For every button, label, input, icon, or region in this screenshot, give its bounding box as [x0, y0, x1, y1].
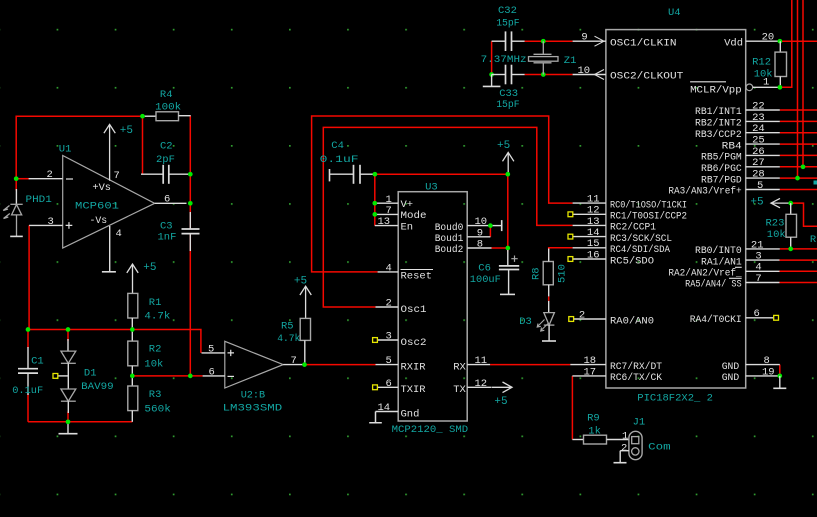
wire pin4 exit [780, 270, 817, 272]
wire Boud2 to +5 [492, 247, 508, 249]
svg-text:2pF: 2pF [156, 154, 175, 166]
ground stub below J1 [619, 451, 621, 463]
capacitor C1 top stub [27, 347, 29, 369]
svg-text:5: 5 [757, 180, 763, 192]
wire RB pin 26 exit [780, 154, 817, 156]
resistor R9 [584, 435, 607, 444]
svg-text:Vdd: Vdd [724, 37, 743, 49]
pin 1 MCLR stub [753, 86, 780, 88]
svg-text:LM393SMD: LM393SMD [223, 402, 283, 414]
junction bus/pin28 [795, 176, 800, 181]
pin 2 RA0 stub [574, 318, 606, 320]
resistor R23 [786, 214, 797, 237]
svg-text:10k: 10k [767, 229, 786, 241]
svg-text:11: 11 [587, 194, 600, 206]
svg-text:C6: C6 [478, 262, 491, 274]
svg-text:MCP601: MCP601 [75, 200, 119, 212]
op-amp U2:B [225, 341, 283, 388]
svg-text:PHD1: PHD1 [26, 194, 52, 206]
resistor R4 left stub [143, 115, 157, 117]
svg-text:U1: U1 [59, 144, 72, 156]
svg-text:23: 23 [752, 112, 765, 124]
R23 bottom stub [790, 237, 792, 249]
svg-text:3: 3 [386, 331, 392, 343]
junction pin2/PHD1 [14, 176, 19, 181]
svg-text:10: 10 [578, 65, 591, 77]
wire +5/C6 vertical [507, 174, 509, 252]
diode D1 mid stub [67, 363, 69, 389]
svg-text:TX: TX [453, 384, 466, 396]
svg-text:RB4: RB4 [722, 140, 742, 152]
svg-text:22: 22 [752, 100, 765, 112]
pin 8 GND stub [746, 364, 780, 366]
crystal Z1 [529, 41, 559, 74]
pin 4 of U1 [109, 226, 111, 271]
overline on SS [729, 277, 742, 279]
svg-text:RB3/CCP2: RB3/CCP2 [695, 129, 742, 141]
svg-text:RC4/SDI/SDA: RC4/SDI/SDA [610, 244, 671, 256]
wire RB pin 27 exit [780, 166, 817, 168]
pin 27 stub [746, 166, 780, 168]
junction Boud0 gnd tie [488, 223, 493, 228]
svg-text:6: 6 [164, 194, 170, 206]
minus sign at pin2 [66, 178, 73, 180]
junction V+ pin1 [372, 201, 377, 206]
svg-text:RA5/AN4/ SS: RA5/AN4/ SS [685, 279, 742, 291]
wire pin21 exit [780, 248, 817, 250]
svg-text:11: 11 [475, 355, 488, 367]
unconnected marker TXIR [373, 385, 378, 390]
resistor R12 [775, 52, 787, 76]
svg-text:RC7/RX/DT: RC7/RX/DT [610, 361, 662, 373]
pin 13 En stub [375, 225, 398, 227]
svg-text:U2:B: U2:B [241, 390, 266, 402]
connector J1 body [629, 431, 642, 459]
pin 24 stub [746, 132, 780, 134]
junction R1/R2 [130, 327, 135, 332]
op-amp U1 [63, 156, 155, 249]
ground below PHD1 [10, 235, 23, 237]
ground below C32/C33 [483, 85, 501, 87]
wire MCLR vertical exit [780, 0, 792, 87]
svg-text:C1: C1 [31, 355, 44, 367]
ground below C6 [500, 293, 515, 295]
diode D1 lower [61, 389, 76, 401]
svg-text:RB7/PGD: RB7/PGD [701, 174, 742, 186]
capacitor C4 left stub [330, 173, 354, 175]
unconnected marker pin2 [569, 317, 574, 322]
overline on Reset [401, 269, 434, 271]
pin 11 RC0 stub [573, 202, 606, 204]
capacitor C33 right stub [512, 74, 525, 76]
svg-text:100k: 100k [155, 102, 181, 114]
IC U3 MCP2120 body [398, 192, 467, 421]
ground below pin4 U1 [102, 271, 116, 273]
svg-text:10: 10 [475, 216, 488, 228]
svg-text:Mode: Mode [401, 210, 427, 222]
R12 bottom stub [779, 77, 781, 88]
pin 6 TXIR stub [377, 386, 398, 388]
svg-text:1nF: 1nF [158, 232, 177, 244]
svg-text:0.1uF: 0.1uF [320, 154, 359, 166]
supply +5 arrow above R1 [127, 264, 138, 293]
svg-text:6: 6 [386, 378, 392, 390]
pin 8 Boud2 stub [467, 247, 491, 249]
unconnected marker pin14 [568, 234, 573, 239]
svg-text:U4: U4 [668, 7, 681, 19]
wire C32/C33 left vertical [491, 41, 493, 74]
svg-text:Com: Com [648, 442, 670, 454]
wire GND8 to GND19 tie [779, 365, 781, 376]
capacitor C2 plate1 [162, 165, 164, 184]
capacitor C33 left stub [492, 74, 506, 76]
junction C33 left [489, 72, 494, 77]
wire mid rail (C1/D1/R1-R2 junction to U2 pin5) [28, 330, 201, 353]
svg-text:OSC2/CLKOUT: OSC2/CLKOUT [610, 71, 683, 83]
capacitor C32 plate1 [505, 31, 507, 51]
svg-text:RC3/SCK/SCL: RC3/SCK/SCL [610, 233, 672, 245]
svg-text:14: 14 [378, 402, 391, 414]
svg-text:9: 9 [581, 32, 587, 44]
svg-text:PIC18F2X2_ 2: PIC18F2X2_ 2 [637, 393, 713, 405]
svg-text:8: 8 [764, 355, 770, 367]
svg-text:RB5/PGM: RB5/PGM [701, 152, 742, 164]
resistor R8 [543, 262, 553, 285]
clock input arrow pin9 [595, 36, 605, 46]
pin 5 RXIR stub [376, 364, 399, 366]
pin 1 V+ stub [375, 202, 398, 204]
svg-text:GND: GND [722, 372, 740, 384]
overline on MCLR [690, 81, 726, 83]
wire U2 out to RXIR of U3 [305, 364, 376, 366]
svg-text:100uF: 100uF [470, 274, 501, 286]
capacitor C6 top stub [507, 250, 509, 266]
svg-text:4.7k: 4.7k [144, 311, 170, 323]
wire red tick R8-D3 [548, 296, 550, 301]
svg-text:4.7k: 4.7k [277, 333, 300, 345]
junction Boud2/+5 [505, 246, 510, 251]
svg-text:R2: R2 [149, 344, 162, 356]
pin 17 RC6 stub [572, 375, 606, 377]
svg-text:RA0/AN0: RA0/AN0 [610, 315, 654, 327]
svg-text:27: 27 [752, 157, 765, 169]
supply +5 arrow right of TX [492, 382, 512, 393]
capacitor C2 plate2 [168, 165, 170, 184]
pin 2 Osc1 stub [376, 306, 399, 308]
svg-text:26: 26 [752, 146, 765, 158]
svg-text:R23: R23 [766, 217, 785, 229]
wire OSC2/CLKOUT row [525, 74, 573, 76]
pin 3 stub [746, 259, 780, 261]
wire +5/R23 exit jog [791, 203, 817, 226]
ground right of Boud0 [501, 220, 503, 231]
unconnected marker pin12 [568, 212, 573, 217]
capacitor C4 plate2 [359, 165, 361, 184]
pin 11 RX stub [467, 364, 490, 366]
svg-text:Boud2: Boud2 [435, 244, 464, 256]
capacitor C1 plate1 [18, 368, 38, 370]
capacitor C32 plate2 [511, 31, 513, 51]
svg-text:RB1/INT1: RB1/INT1 [695, 106, 742, 118]
svg-text:13: 13 [378, 216, 391, 228]
svg-text:En: En [401, 221, 414, 233]
wire RB pin 28 exit [780, 177, 817, 179]
unconnected marker Osc2 [373, 338, 378, 343]
pin 5 of U2 [202, 352, 225, 354]
ground below GND19 [773, 387, 786, 389]
capacitor C2 right stub [169, 173, 191, 175]
svg-text:RC1/T0OSI/CCP2: RC1/T0OSI/CCP2 [610, 211, 687, 223]
wire D1 top stub red [67, 330, 69, 342]
svg-text:7: 7 [291, 355, 297, 367]
plus sign at pin3 [66, 222, 73, 229]
diode D1 top stub [67, 339, 69, 351]
junction Vdd/R12 [778, 39, 783, 44]
svg-text:9: 9 [477, 227, 483, 239]
minus sign at pin6 [228, 375, 235, 377]
capacitor C32 right stub [512, 40, 525, 42]
svg-text:RXIR: RXIR [401, 361, 427, 373]
resistor R5 [300, 318, 310, 340]
wire R2/R3 junction to U2 pin6 [132, 375, 202, 377]
svg-text:+5: +5 [497, 140, 510, 152]
svg-text:1: 1 [386, 194, 392, 206]
svg-text:RB6/PGC: RB6/PGC [701, 163, 742, 175]
svg-text:15: 15 [587, 238, 600, 250]
wire C1 top red [27, 330, 29, 349]
diode D1 lower cathode bar [61, 400, 76, 402]
pin 12 RC1 stub [573, 213, 606, 215]
IC U4 PIC18F2X2 body [606, 30, 746, 388]
svg-text:R9: R9 [587, 413, 600, 425]
diode D1 tap stub [58, 375, 68, 377]
svg-text:MCLR/Vpp: MCLR/Vpp [690, 84, 742, 96]
svg-text:BAV99: BAV99 [81, 381, 114, 393]
pin 18 RC7 stub [570, 364, 606, 366]
svg-text:U3: U3 [425, 182, 438, 194]
svg-text:5: 5 [386, 355, 392, 367]
svg-text:C2: C2 [160, 140, 173, 152]
svg-text:17: 17 [584, 366, 597, 378]
svg-text:+5: +5 [120, 125, 133, 137]
svg-text:4: 4 [116, 228, 122, 240]
pin 6 stub [746, 317, 774, 319]
ground below J1 pin2 [614, 462, 627, 464]
junction C2 right [188, 172, 193, 177]
connector J1 pad2 [632, 448, 639, 455]
junction U1 out [188, 201, 193, 206]
R3 bottom stub [131, 411, 133, 422]
wire vertical bus line 3 [802, 0, 804, 167]
svg-text:R4: R4 [160, 89, 173, 101]
wire +5 rail (C4 to C6 top) [375, 173, 508, 175]
svg-text:+5: +5 [750, 197, 763, 209]
svg-text:RB2/INT2: RB2/INT2 [695, 118, 742, 130]
svg-text:2: 2 [386, 298, 392, 310]
D3 bottom stub [548, 325, 550, 341]
wire Boud0/Boud1 tie [489, 226, 491, 237]
unconnected marker D1 tap [53, 374, 58, 379]
svg-text:7: 7 [114, 170, 120, 182]
wire D1 bottom stub red [67, 412, 69, 422]
pin 20 Vdd stub [746, 40, 780, 42]
pin 13 RC2 stub [573, 224, 606, 226]
capacitor C2 left stub [141, 173, 163, 175]
svg-text:R12: R12 [752, 56, 771, 68]
pin 9 Boud1 stub [467, 236, 490, 238]
svg-text:RB0/INT0: RB0/INT0 [695, 245, 742, 257]
R2-R3 stub [131, 366, 133, 386]
svg-text:RA3/AN3/Vref+: RA3/AN3/Vref+ [668, 186, 741, 198]
svg-text:1k: 1k [588, 425, 601, 437]
junction C4/+5 rail [373, 172, 378, 177]
svg-text:R8: R8 [531, 267, 543, 280]
capacitor C1 bottom stub [27, 373, 29, 395]
supply +5 arrow left at R23 [771, 198, 791, 207]
R8-D3 stub [548, 301, 550, 313]
pin 3 Osc2 stub [377, 339, 398, 341]
ground stub GND19 [779, 376, 781, 388]
svg-text:3: 3 [755, 251, 761, 263]
svg-text:Reset: Reset [401, 271, 433, 283]
junction R23/pin21 [788, 247, 793, 252]
capacitor C3 top stub [189, 212, 191, 229]
supply +5 arrow above C6 [503, 153, 514, 175]
svg-text:+5: +5 [294, 275, 307, 287]
resistor R1 [128, 293, 138, 318]
wire pin3 of U1 down [28, 225, 30, 329]
svg-text:Boud1: Boud1 [435, 233, 464, 245]
pin 15 RC4 stub [573, 247, 606, 249]
svg-text:4: 4 [755, 262, 761, 274]
R8 top stub [548, 249, 550, 262]
svg-text:OSC1/CLKIN: OSC1/CLKIN [610, 37, 677, 49]
svg-text:+5: +5 [143, 262, 156, 274]
svg-text:D1: D1 [84, 368, 97, 380]
svg-text:7: 7 [755, 273, 761, 285]
pin 5 stub [746, 189, 780, 191]
junction bus/pin27 [801, 164, 806, 169]
wire Vdd exit [780, 40, 817, 42]
svg-text:5: 5 [208, 343, 214, 355]
pin 9 OSC1 stub [573, 40, 606, 42]
plus sign of C6 [511, 256, 517, 262]
svg-text:R1: R1 [149, 297, 162, 309]
svg-text:C4: C4 [331, 140, 344, 152]
junction R4 left [140, 114, 145, 119]
pin 2 J1 stub [620, 450, 629, 452]
supply +5 arrow above U1 [104, 124, 115, 180]
photodiode PHD1 [3, 204, 23, 236]
wire R4/C2 left vertical [142, 116, 144, 174]
junction C1 top [26, 327, 31, 332]
svg-text:RC0/T1OSO/T1CKI: RC0/T1OSO/T1CKI [610, 199, 687, 211]
svg-text:8: 8 [477, 239, 483, 251]
svg-text:1: 1 [622, 430, 628, 442]
wire RB pin 25 exit [780, 143, 817, 145]
wire net RESET (U3 pin4 to U4 pin11) [312, 116, 573, 272]
wire +5 drop to U3 pins 1/7/13 [374, 174, 376, 225]
plus sign at pin5 [228, 350, 235, 356]
connector J1 pad1 [632, 437, 639, 444]
svg-text:7: 7 [386, 205, 392, 217]
pin 4 stub [746, 270, 780, 272]
ground stub below C33 left [491, 75, 493, 87]
R1-R2 stub [131, 318, 133, 341]
svg-text:6: 6 [754, 308, 760, 320]
LED D3 cathode bar [544, 324, 555, 326]
R23 top stub [790, 203, 792, 214]
wire RB pin 5 exit [780, 189, 817, 191]
junction R2/R3 [130, 374, 135, 379]
junction D1 gnd [66, 419, 71, 424]
resistor R2 [128, 341, 138, 366]
wire ground rail bottom-left [28, 421, 132, 423]
unconnected marker pin6 [774, 315, 779, 320]
wire net RX (U3 pin11 to U4 pin18) [490, 364, 570, 366]
pin 16 RC5 stub [573, 258, 606, 260]
svg-text:1: 1 [763, 77, 769, 89]
svg-text:+Vs: +Vs [92, 183, 111, 194]
svg-text:MCP2120_ SMD: MCP2120_ SMD [392, 424, 469, 436]
pin 25 stub [746, 143, 780, 145]
svg-text:Boud0: Boud0 [435, 222, 464, 234]
svg-text:15pF: 15pF [496, 99, 520, 111]
pin 6 of U2 [203, 375, 225, 377]
unconnected marker pin16 [568, 257, 573, 262]
svg-text:28: 28 [752, 169, 765, 181]
photodiode PHD1 cathode stub [15, 189, 17, 204]
inversion bubble MCLR [746, 84, 753, 91]
svg-text:24: 24 [752, 123, 765, 135]
wire U4 pin15 to R8 [549, 248, 573, 250]
junction U2 out/R5 [302, 362, 307, 367]
wire PHD1 anode stub [15, 179, 17, 191]
svg-text:560k: 560k [144, 403, 171, 415]
ground left of C4 [329, 169, 331, 181]
svg-text:7.37MHz: 7.37MHz [481, 54, 527, 66]
wire pin2 stub red [16, 178, 29, 180]
wire C1 bottom red [27, 394, 29, 422]
svg-text:RC2/CCP1: RC2/CCP1 [610, 222, 656, 234]
svg-text:RA1/AN1: RA1/AN1 [701, 256, 742, 268]
diode D1 upper cathode bar [61, 362, 76, 364]
wire net IN- (pin2 of U1 to R4/C2 left) [16, 116, 142, 179]
wire C3 lower to R2/R3 junction [189, 234, 191, 376]
ground stub below D1 [67, 422, 69, 434]
junction Mode pin7 [372, 212, 377, 217]
svg-text:TXIR: TXIR [401, 384, 427, 396]
pin 7 of U2 output [283, 364, 304, 366]
diode D1 bottom stub [67, 401, 69, 413]
svg-text:C32: C32 [498, 5, 517, 17]
svg-text:Gnd: Gnd [401, 408, 420, 420]
pin 7 stub [746, 282, 780, 284]
junction D1 top [66, 327, 71, 332]
svg-text:10k: 10k [144, 358, 163, 370]
svg-text:2: 2 [579, 309, 585, 321]
capacitor C6 plate2 [499, 269, 519, 271]
svg-text:16: 16 [587, 249, 600, 261]
R8 bottom stub [548, 285, 550, 297]
wire vertical bus line 2 [797, 0, 799, 178]
svg-text:V+: V+ [401, 199, 414, 211]
clock output arrow pin10 [595, 70, 605, 80]
wire pin7 exit [780, 282, 817, 284]
capacitor C33 plate2 [511, 65, 513, 85]
svg-text:15pF: 15pF [496, 18, 520, 30]
capacitor C3 plate2 [182, 233, 200, 235]
